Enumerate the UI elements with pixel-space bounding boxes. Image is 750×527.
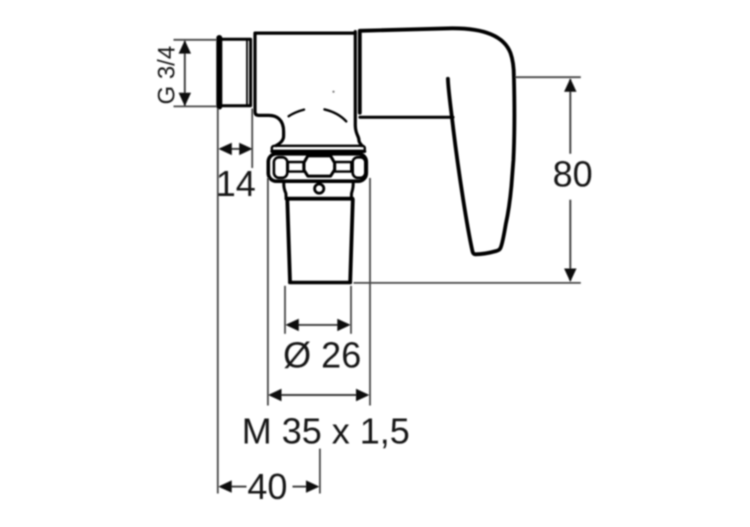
small speck	[332, 91, 334, 93]
dimension 40 extension line right	[319, 449, 321, 494]
dimension 14 arrow right	[239, 143, 252, 155]
dimension G 3/4 extension lines	[174, 40, 217, 107]
dimension diameter 26 line	[298, 324, 339, 326]
lever handle	[360, 28, 515, 254]
dimension M35 arrow left	[268, 389, 281, 401]
dimension 14 extension line right	[251, 109, 253, 169]
body crease dash left	[289, 110, 304, 117]
svg-text:14: 14	[216, 163, 256, 204]
dimension G 3/4 arrow up	[179, 40, 191, 53]
washer ring under body	[272, 146, 365, 152]
body crease dash right	[325, 109, 347, 121]
dimension diameter 26 arrow left	[285, 319, 298, 331]
dimension 80 arrow up	[564, 78, 576, 91]
dimension 40 line	[231, 486, 308, 488]
svg-text:40: 40	[247, 466, 287, 507]
dimension 80 extension line bottom	[354, 282, 581, 284]
svg-text:G 3/4: G 3/4	[154, 46, 181, 105]
dimension 80 extension line top	[516, 76, 581, 78]
svg-text:M 35 x 1,5: M 35 x 1,5	[242, 410, 410, 451]
dimension 40 arrow left	[218, 480, 231, 492]
dimension G 3/4 line	[184, 41, 186, 106]
valve body	[255, 32, 362, 146]
dimension M35 line	[280, 394, 358, 396]
dimension diameter 26 arrow right	[337, 319, 350, 331]
dimension 14 line	[231, 148, 242, 150]
outlet spout shank	[287, 199, 353, 283]
svg-text:80: 80	[553, 153, 593, 194]
dimension 14 extension line left long (shared with 40)	[217, 109, 219, 494]
dimension G 3/4 arrow down	[179, 93, 191, 106]
dimension 14 arrow left	[218, 143, 231, 155]
set screw hole	[315, 184, 324, 193]
svg-text:Ø 26: Ø 26	[283, 334, 361, 375]
dimension 80 line	[569, 79, 571, 281]
hex nut M35	[268, 154, 366, 181]
dimension diameter 26 extension lines	[285, 286, 351, 334]
dimension 40 arrow right	[306, 480, 319, 492]
collar below nut	[284, 182, 354, 198]
dimension M35 extension lines	[268, 178, 370, 406]
threaded tail nipple G3/4 body	[218, 38, 251, 107]
dimension M35 arrow right	[356, 389, 369, 401]
dimension 80 arrow down	[564, 269, 576, 282]
